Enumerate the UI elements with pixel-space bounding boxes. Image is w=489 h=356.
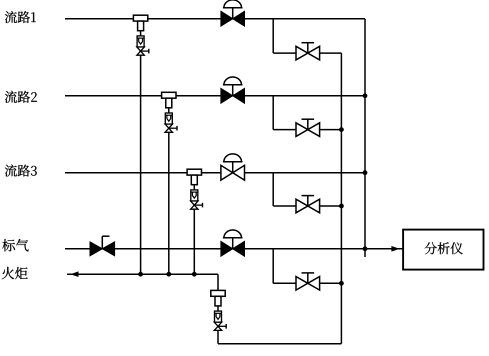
- wire bypass-2 horizontal: [273, 129, 341, 131]
- pressure regulator R3 body: [187, 169, 201, 175]
- junction bypass header / bypass-4: [339, 281, 344, 286]
- wire regulator-1 drop to flare line: [140, 55, 142, 274]
- wire flare regulator outlet down: [217, 330, 219, 343]
- shutoff valve span-gas body right: [102, 242, 114, 256]
- filter R4 body: [215, 311, 222, 322]
- needle valve R1 body bottom: [137, 51, 144, 55]
- wire main header vertical: [364, 19, 366, 249]
- hand valve V1 handle: [307, 43, 309, 53]
- solenoid valve S3 body left: [221, 165, 233, 180]
- wire bypass-4 down branch: [272, 249, 274, 283]
- wire flare line drop: [217, 274, 219, 290]
- needle valve R2 handle: [169, 127, 177, 129]
- needle valve R4 body bottom: [214, 326, 221, 330]
- hand valve V3 body left: [296, 199, 308, 213]
- pressure regulator R4 neck: [215, 296, 221, 306]
- hand valve V2 body right: [308, 123, 320, 137]
- wire stream-1 line: [65, 18, 365, 20]
- wire stream-3 line: [65, 172, 365, 174]
- needle valve R4 handle: [218, 325, 226, 327]
- needle valve R2 body top: [165, 124, 172, 128]
- needle valve R3 handle: [194, 204, 202, 206]
- filter R4 element: [215, 312, 222, 314]
- solenoid valve S3 stem: [232, 162, 234, 173]
- wire bypass-1 horizontal: [273, 52, 341, 54]
- solenoid valve S3 body right: [233, 165, 245, 180]
- solenoid valve S1 body right: [233, 11, 245, 26]
- wire bypass-3 horizontal: [273, 205, 341, 207]
- wire regulator R1 to filter: [140, 31, 142, 36]
- wire regulator R4 to filter: [217, 306, 219, 311]
- junction main header / stream-3: [363, 170, 368, 175]
- wire bypass header vertical: [340, 53, 342, 344]
- hand valve V4 handle: [307, 273, 309, 283]
- label huoju: [2, 267, 28, 279]
- analyzer feed arrowhead: [392, 247, 398, 251]
- needle valve R1 body top: [137, 47, 144, 51]
- label liulu3: [5, 164, 37, 176]
- solenoid valve S4 body left: [221, 241, 233, 256]
- wire stream-2 line: [65, 95, 365, 97]
- analyzer box: [403, 230, 483, 270]
- solenoid valve S4 stem: [232, 238, 234, 249]
- pressure regulator R4 body: [211, 290, 225, 296]
- hand valve V4 body right: [308, 277, 320, 291]
- hand valve V3 handle: [307, 196, 309, 206]
- hand valve V3 body right: [308, 199, 320, 213]
- label biaoqi: [2, 239, 28, 251]
- junction main header / stream-2: [363, 93, 368, 98]
- needle valve R3 body top: [191, 201, 198, 205]
- pressure regulator R3 neck: [191, 175, 197, 185]
- wire analyzer feed line: [365, 248, 403, 250]
- solenoid valve S4 body right: [233, 241, 245, 256]
- needle valve R1 handle: [141, 50, 149, 52]
- wire regulator R3 to filter: [193, 185, 195, 190]
- wire regulator-2 drop to flare line: [168, 132, 170, 274]
- label liulu1: [5, 11, 36, 23]
- wire span-gas line: [65, 248, 365, 250]
- hand valve V1 body left: [296, 46, 308, 60]
- needle valve R4 body top: [214, 322, 221, 326]
- solenoid valve S4 actuator dome: [224, 230, 242, 238]
- label fenxiyi: [425, 242, 463, 254]
- wire main header stub: [364, 249, 366, 257]
- shutoff valve span-gas lever handle: [101, 236, 103, 249]
- wire regulator-3 drop to flare line: [193, 209, 195, 274]
- needle valve R3 body bottom: [191, 205, 198, 209]
- junction main header / span-gas line: [363, 246, 368, 251]
- hand valve V2 handle: [307, 119, 309, 129]
- needle valve R2 body bottom: [165, 128, 172, 132]
- pressure regulator R1 neck: [138, 21, 144, 31]
- wire flare line: [67, 273, 218, 275]
- solenoid valve S2 body left: [221, 88, 233, 103]
- filter R1 body: [137, 36, 144, 47]
- hand valve V4 body left: [296, 277, 308, 291]
- solenoid valve S2 stem: [232, 85, 234, 96]
- wire bypass-4 horizontal: [273, 282, 341, 284]
- hand valve V2 body left: [296, 123, 308, 137]
- solenoid valve S1 body left: [221, 11, 233, 26]
- pressure regulator R2 body: [162, 92, 176, 98]
- filter R2 body: [165, 113, 172, 124]
- label liulu2: [5, 91, 37, 103]
- junction flare line / drop-3: [192, 272, 197, 277]
- solenoid valve S2 body right: [233, 88, 245, 103]
- wire regulator R2 to filter: [168, 108, 170, 113]
- junction flare line / drop-1: [138, 272, 143, 277]
- solenoid valve S3 actuator dome: [224, 154, 242, 162]
- wire bottom return line: [218, 343, 341, 345]
- wire bypass-1 down branch: [272, 19, 274, 53]
- filter R3 body: [191, 190, 198, 201]
- solenoid valve S2 actuator dome: [224, 77, 242, 85]
- wire bypass-3 down branch: [272, 173, 274, 206]
- junction flare line / drop-2: [166, 272, 171, 277]
- junction bypass header / bypass-2: [339, 127, 344, 132]
- pressure regulator R2 neck: [166, 98, 172, 108]
- flare line arrowhead: [72, 272, 78, 276]
- solenoid valve S1 stem: [232, 8, 234, 19]
- filter R2 element: [165, 114, 172, 116]
- solenoid valve S1 actuator dome: [224, 0, 242, 8]
- shutoff valve span-gas body left: [90, 242, 102, 256]
- pressure regulator R1 body: [133, 15, 147, 21]
- filter R1 element: [137, 37, 144, 39]
- filter R3 element: [191, 191, 198, 193]
- hand valve V1 body right: [308, 46, 320, 60]
- wire bypass-2 down branch: [272, 96, 274, 130]
- junction bypass header / bypass-3: [339, 204, 344, 209]
